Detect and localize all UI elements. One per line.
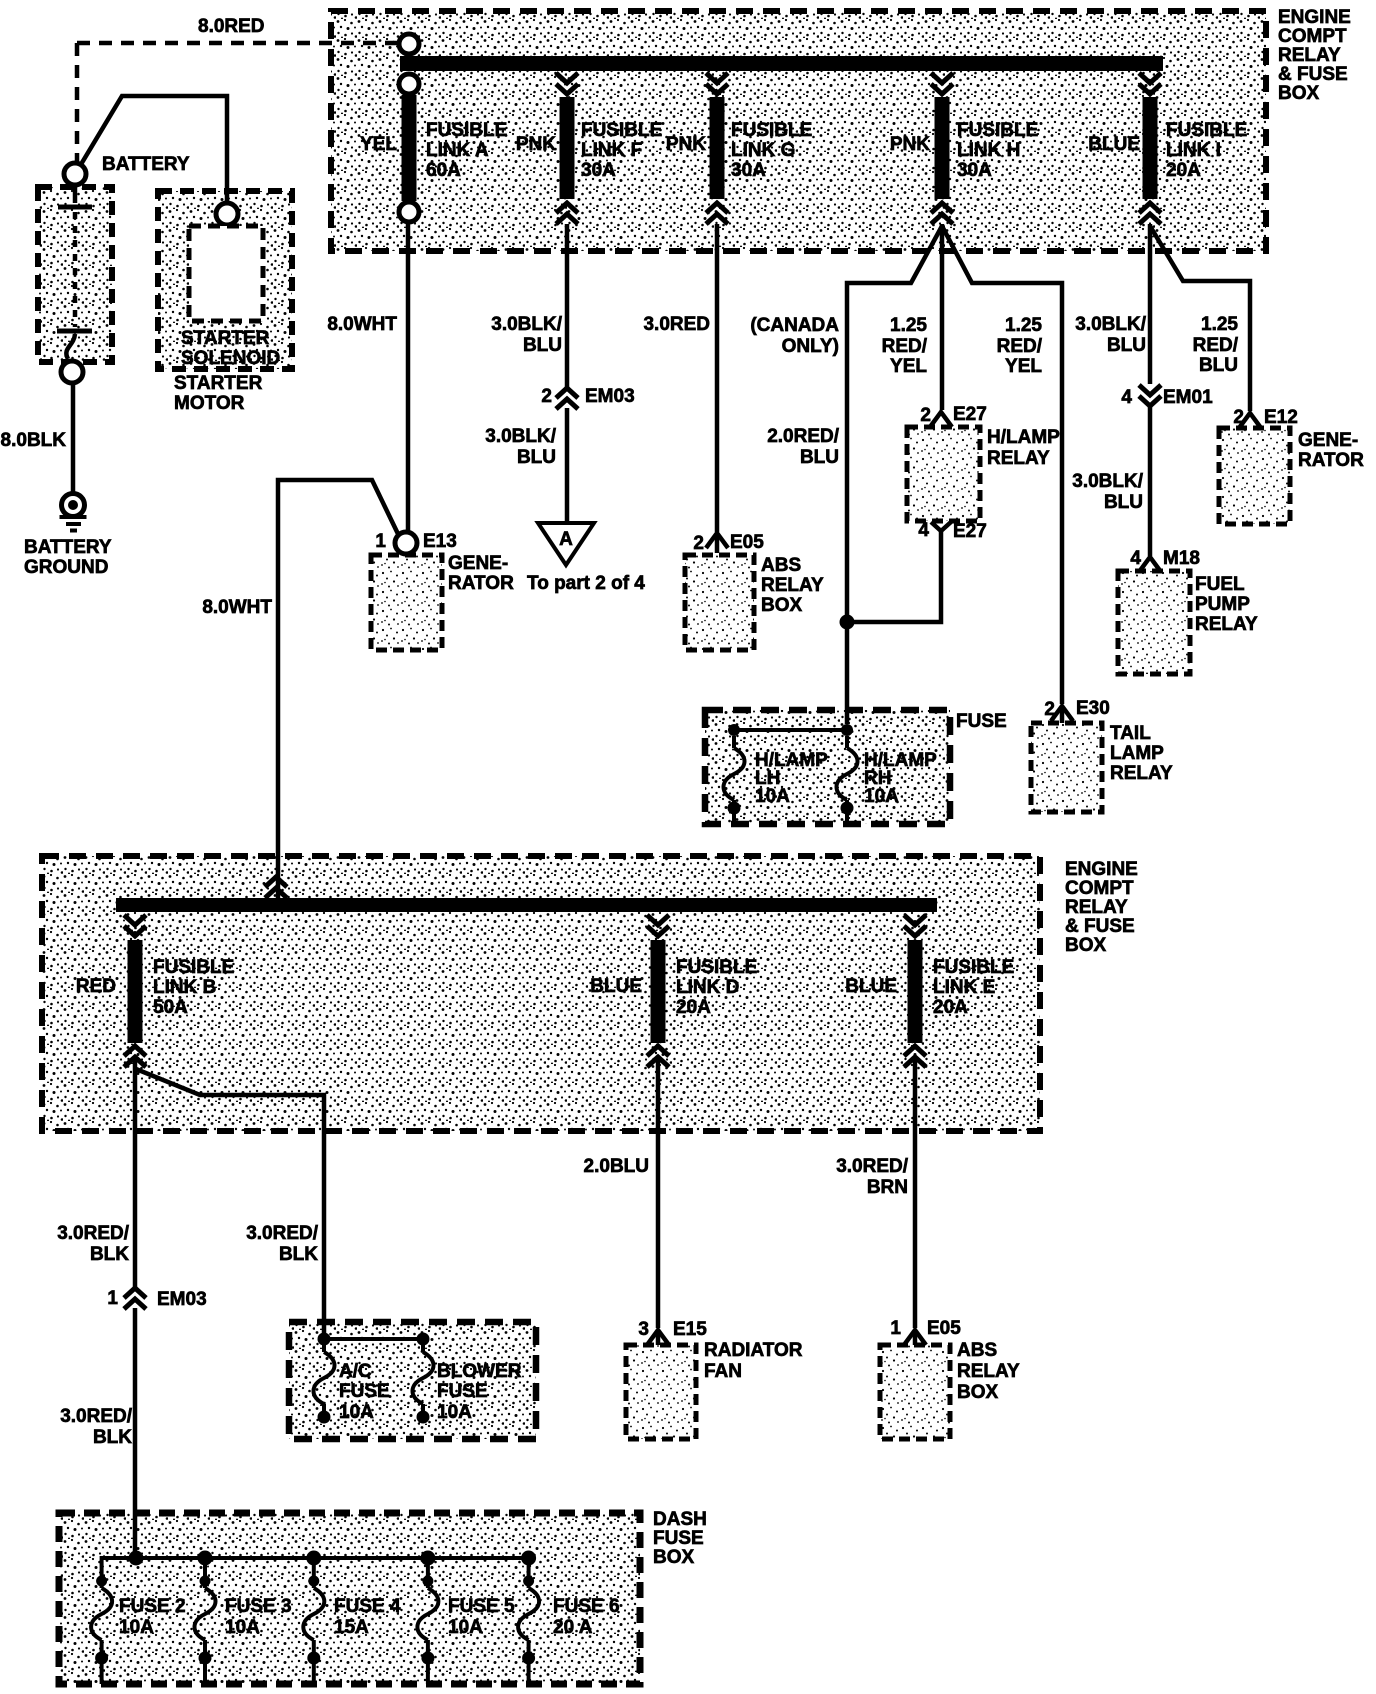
a/c - blower fuse box [289, 1322, 536, 1439]
engine compt relay & fuse box 1 (top) [331, 7, 1351, 251]
fusible link F 30A [516, 73, 662, 224]
svg-text:BOX: BOX [761, 595, 803, 616]
svg-text:FUSE: FUSE [437, 1381, 488, 1402]
wire 3.0BLK/BLU link F to EM03 [565, 224, 570, 387]
svg-text:30A: 30A [731, 160, 766, 181]
svg-text:RELAY: RELAY [1278, 45, 1341, 66]
fuse h/lamp lh 10A [724, 736, 829, 824]
svg-text:20A: 20A [1166, 160, 1201, 181]
junction h/lamp lh [728, 724, 740, 736]
svg-text:LINK F: LINK F [581, 140, 642, 161]
svg-text:1.25: 1.25 [890, 315, 927, 336]
starter solenoid / starter motor [158, 191, 292, 414]
junction node [840, 615, 855, 630]
svg-text:FUSE 6: FUSE 6 [553, 1596, 620, 1617]
fuse blower 10A [413, 1345, 522, 1424]
svg-text:EM03: EM03 [157, 1289, 207, 1310]
svg-text:RELAY: RELAY [987, 448, 1050, 469]
fusible link H 30A [890, 73, 1038, 224]
wire battery positive to starter solenoid [80, 96, 227, 202]
svg-text:E12: E12 [1264, 407, 1298, 428]
svg-text:10A: 10A [864, 786, 899, 807]
tail lamp relay box [1031, 723, 1173, 812]
svg-text:A/C: A/C [339, 1361, 372, 1382]
svg-text:FUSE 5: FUSE 5 [448, 1596, 515, 1617]
wire 3.0RED/BRN link E to E05 [913, 1060, 918, 1328]
svg-text:COMPT: COMPT [1278, 26, 1347, 47]
svg-text:3.0BLK/: 3.0BLK/ [1072, 471, 1143, 492]
svg-text:2.0RED/: 2.0RED/ [767, 426, 840, 447]
svg-text:1.25: 1.25 [1201, 314, 1238, 335]
svg-text:BATTERY: BATTERY [102, 154, 190, 175]
svg-text:3.0BLK/: 3.0BLK/ [491, 314, 562, 335]
svg-text:E27: E27 [953, 521, 987, 542]
svg-text:ONLY): ONLY) [782, 336, 839, 357]
battery [38, 154, 190, 383]
wire 3.0RED/BLK EM03 to dash fuse box [133, 1308, 138, 1552]
svg-text:10A: 10A [339, 1402, 374, 1423]
fusible link A 60A [360, 34, 507, 222]
svg-text:LAMP: LAMP [1110, 743, 1164, 764]
fuse 2 10A [91, 1576, 185, 1685]
svg-text:FUSE: FUSE [956, 711, 1007, 732]
svg-text:E13: E13 [423, 531, 457, 552]
generator box (E13) [371, 553, 514, 650]
svg-text:E15: E15 [673, 1319, 707, 1340]
connector E12 pin 2 [1233, 407, 1297, 428]
fuse 5 10A [417, 1558, 515, 1684]
svg-text:20A: 20A [933, 997, 968, 1018]
svg-text:PUMP: PUMP [1195, 594, 1250, 615]
wire 3.0BLK/BLU EM01 to M18 [1148, 406, 1153, 556]
svg-text:BLK: BLK [90, 1244, 129, 1265]
svg-text:20A: 20A [676, 997, 711, 1018]
svg-text:E05: E05 [730, 532, 764, 553]
svg-text:BLU: BLU [800, 447, 839, 468]
bus bar 2 [116, 898, 937, 912]
battery ground symbol [24, 494, 112, 579]
junction h/lamp rh [841, 724, 853, 736]
junction fuse 4 [306, 1551, 321, 1566]
bus bar 1 [400, 56, 1163, 71]
fusible link E 20A [845, 915, 1014, 1067]
wire 8.0RED battery to fuse box [77, 43, 398, 162]
fuel pump relay box [1118, 571, 1258, 674]
svg-text:BLU: BLU [523, 335, 562, 356]
svg-text:3: 3 [638, 1319, 649, 1340]
svg-text:FUSIBLE: FUSIBLE [676, 957, 757, 978]
fuse box (h/lamp fuses) [705, 710, 1007, 824]
svg-text:RED/: RED/ [1193, 335, 1239, 356]
svg-text:BATTERY: BATTERY [24, 537, 112, 558]
svg-text:LINK E: LINK E [933, 977, 995, 998]
wire a/c fuse bus [324, 1337, 423, 1341]
svg-text:RELAY: RELAY [957, 1361, 1020, 1382]
svg-text:GROUND: GROUND [24, 557, 108, 578]
svg-text:30A: 30A [957, 160, 992, 181]
fuse 4 15A [303, 1558, 401, 1684]
fuse A/C 10A [314, 1345, 390, 1424]
svg-text:LINK D: LINK D [676, 977, 739, 998]
svg-text:FUSE 3: FUSE 3 [225, 1596, 292, 1617]
off-page connector A [527, 523, 645, 594]
svg-text:10A: 10A [755, 786, 790, 807]
abs relay box (top) [685, 555, 824, 650]
wire link H left branch [847, 226, 942, 724]
connector EM03 pin 2 [541, 386, 634, 409]
svg-text:RELAY: RELAY [1110, 763, 1173, 784]
wire 8.0BLK battery to ground [71, 383, 76, 493]
wire 3.0RED/BLK link B to EM03 [133, 1060, 138, 1287]
svg-text:BLUE: BLUE [845, 976, 897, 997]
svg-text:RED/: RED/ [997, 336, 1043, 357]
fusible link B 50A [76, 915, 234, 1067]
svg-text:FUSE: FUSE [653, 1528, 704, 1549]
svg-text:DASH: DASH [653, 1509, 707, 1530]
svg-text:A: A [559, 529, 573, 550]
svg-text:STARTER: STARTER [174, 373, 263, 394]
svg-text:FUSIBLE: FUSIBLE [731, 120, 812, 141]
wire 3.0RED link G to E05 [715, 224, 720, 532]
svg-text:10A: 10A [437, 1402, 472, 1423]
svg-text:FUEL: FUEL [1195, 574, 1245, 595]
svg-text:LINK I: LINK I [1166, 140, 1221, 161]
svg-text:10A: 10A [448, 1617, 483, 1638]
fuse 3 10A [195, 1558, 292, 1684]
wire 2.0BLU link D to E15 [656, 1060, 661, 1328]
svg-text:2: 2 [920, 405, 931, 426]
svg-text:SOLENOID: SOLENOID [181, 348, 280, 369]
svg-text:3.0RED/: 3.0RED/ [836, 1156, 909, 1177]
svg-text:10A: 10A [119, 1617, 154, 1638]
svg-text:LINK G: LINK G [731, 140, 795, 161]
svg-text:BRN: BRN [867, 1177, 908, 1198]
svg-text:ABS: ABS [761, 555, 801, 576]
svg-text:FUSIBLE: FUSIBLE [1166, 120, 1247, 141]
wire 8.0WHT link A to E13 [406, 224, 411, 532]
connector E05 pin 1 [890, 1318, 961, 1345]
generator box (E12) [1219, 428, 1364, 524]
svg-text:TAIL: TAIL [1110, 723, 1151, 744]
junction incoming [129, 1551, 144, 1566]
svg-text:8.0RED: 8.0RED [198, 16, 265, 37]
wire 3.0BLK/BLU EM03 to A [565, 408, 570, 521]
svg-text:YEL: YEL [1005, 356, 1042, 377]
svg-text:FUSIBLE: FUSIBLE [426, 120, 507, 141]
svg-text:RATOR: RATOR [1298, 450, 1364, 471]
svg-text:RED: RED [76, 976, 116, 997]
svg-text:BLU: BLU [1107, 335, 1146, 356]
svg-text:YEL: YEL [890, 356, 927, 377]
svg-text:2.0BLU: 2.0BLU [584, 1156, 649, 1177]
svg-text:ENGINE: ENGINE [1065, 859, 1138, 880]
svg-text:ENGINE: ENGINE [1278, 7, 1351, 28]
svg-text:LINK B: LINK B [153, 977, 216, 998]
svg-text:STARTER: STARTER [181, 328, 270, 349]
svg-text:8.0WHT: 8.0WHT [327, 314, 397, 335]
dash fuse box [59, 1509, 707, 1684]
connector E15 pin 3 [638, 1319, 707, 1345]
connector E27 pin 4 [918, 520, 986, 542]
svg-text:FUSE: FUSE [339, 1381, 390, 1402]
junction fuse 5 [420, 1551, 435, 1566]
wire branch link B to A/C fuse box [136, 1069, 324, 1334]
svg-text:EM01: EM01 [1163, 387, 1213, 408]
svg-text:BLK: BLK [279, 1244, 318, 1265]
svg-text:FUSE 4: FUSE 4 [334, 1596, 401, 1617]
svg-text:15A: 15A [334, 1617, 369, 1638]
svg-text:1: 1 [890, 1318, 901, 1339]
svg-text:BLU: BLU [1199, 355, 1238, 376]
svg-text:& FUSE: & FUSE [1065, 916, 1135, 937]
svg-text:PNK: PNK [890, 134, 930, 155]
wire h/lamp fuse bus [734, 728, 847, 732]
svg-text:8.0BLK: 8.0BLK [1, 430, 67, 451]
junction fuse 6 [521, 1551, 536, 1566]
svg-text:RATOR: RATOR [448, 573, 514, 594]
engine compt relay & fuse box 2 [42, 856, 1138, 1131]
svg-text:2: 2 [1233, 407, 1244, 428]
svg-text:GENE-: GENE- [448, 553, 508, 574]
svg-text:LINK H: LINK H [957, 140, 1020, 161]
abs relay box (bottom) [880, 1340, 1020, 1439]
connector E13 pin 1 [375, 531, 456, 554]
svg-text:FUSIBLE: FUSIBLE [581, 120, 662, 141]
svg-text:PNK: PNK [516, 134, 556, 155]
svg-text:RED/: RED/ [882, 336, 928, 357]
svg-text:RADIATOR: RADIATOR [704, 1340, 803, 1361]
connector EM01 pin 4 [1121, 385, 1213, 408]
connector EM03 pin 1 [107, 1288, 206, 1310]
svg-text:E30: E30 [1076, 698, 1110, 719]
junction blower fuse [417, 1333, 430, 1346]
svg-text:1.25: 1.25 [1005, 315, 1042, 336]
fusible link D 20A [590, 915, 757, 1067]
svg-text:& FUSE: & FUSE [1278, 64, 1348, 85]
svg-text:LINK A: LINK A [426, 140, 489, 161]
svg-text:MOTOR: MOTOR [174, 393, 245, 414]
junction a/c fuse [318, 1333, 331, 1346]
svg-text:3.0RED/: 3.0RED/ [57, 1223, 130, 1244]
svg-text:2: 2 [541, 386, 552, 407]
svg-text:EM03: EM03 [585, 386, 635, 407]
svg-text:BOX: BOX [653, 1547, 695, 1568]
svg-text:FUSE 2: FUSE 2 [119, 1596, 186, 1617]
svg-text:PNK: PNK [666, 134, 706, 155]
connector E30 pin 2 [1044, 698, 1109, 723]
svg-text:2: 2 [1044, 699, 1055, 720]
wire 1.25RED/BLU link I to E12 [1150, 226, 1250, 411]
svg-text:To part 2 of 4: To part 2 of 4 [527, 573, 645, 594]
svg-text:BLUE: BLUE [1088, 134, 1140, 155]
svg-text:50A: 50A [153, 997, 188, 1018]
svg-text:10A: 10A [225, 1617, 260, 1638]
svg-text:RELAY: RELAY [761, 575, 824, 596]
connector E27 pin 2 [920, 404, 986, 427]
svg-text:M18: M18 [1163, 548, 1200, 569]
svg-text:3.0BLK/: 3.0BLK/ [485, 426, 556, 447]
svg-text:GENE-: GENE- [1298, 430, 1358, 451]
svg-text:30A: 30A [581, 160, 616, 181]
wire 3.0BLK/BLU link I to EM01 [1148, 224, 1153, 384]
svg-text:E05: E05 [927, 1318, 961, 1339]
fusible link I 20A [1088, 73, 1247, 224]
svg-text:FUSIBLE: FUSIBLE [153, 957, 234, 978]
svg-text:RELAY: RELAY [1195, 614, 1258, 635]
junction fuse 3 [198, 1551, 213, 1566]
connector into bus 2 [265, 877, 287, 898]
svg-text:FAN: FAN [704, 1361, 742, 1382]
svg-text:1: 1 [375, 531, 386, 552]
svg-text:3.0RED: 3.0RED [643, 314, 710, 335]
wire E27 pin4 to junction [851, 540, 941, 622]
svg-text:4: 4 [1130, 548, 1141, 569]
svg-text:60A: 60A [426, 160, 461, 181]
svg-text:FUSIBLE: FUSIBLE [933, 957, 1014, 978]
svg-text:E27: E27 [953, 404, 987, 425]
svg-text:20 A: 20 A [553, 1617, 593, 1638]
svg-text:COMPT: COMPT [1065, 878, 1134, 899]
svg-text:BOX: BOX [1278, 83, 1320, 104]
h/lamp relay box [907, 427, 1060, 521]
svg-text:BLUE: BLUE [590, 976, 642, 997]
svg-text:RELAY: RELAY [1065, 897, 1128, 918]
dash fuse box bus wire [102, 1558, 529, 1581]
fuse 6 20A [518, 1558, 619, 1684]
svg-text:BLU: BLU [1104, 492, 1143, 513]
svg-text:FUSIBLE: FUSIBLE [957, 120, 1038, 141]
fuse h/lamp rh 10A [837, 736, 938, 824]
svg-text:BLU: BLU [517, 447, 556, 468]
svg-text:(CANADA: (CANADA [750, 315, 839, 336]
radiator fan box [626, 1340, 803, 1439]
fusible link G 30A [666, 73, 812, 224]
connector E05 pin 2 [693, 532, 764, 554]
svg-text:H/LAMP: H/LAMP [987, 427, 1060, 448]
connector M18 pin 4 [1130, 548, 1200, 572]
svg-text:BOX: BOX [957, 1382, 999, 1403]
wire link H right branch to E30 [942, 226, 1062, 704]
svg-text:1: 1 [107, 1288, 118, 1309]
svg-text:4: 4 [1121, 387, 1132, 408]
svg-text:4: 4 [918, 520, 929, 541]
svg-text:YEL: YEL [360, 134, 397, 155]
svg-text:BOX: BOX [1065, 935, 1107, 956]
svg-text:8.0WHT: 8.0WHT [202, 597, 272, 618]
svg-text:2: 2 [693, 533, 704, 554]
svg-text:3.0BLK/: 3.0BLK/ [1075, 314, 1146, 335]
wire link H center branch to E27 [940, 224, 945, 410]
svg-text:BLK: BLK [93, 1427, 132, 1448]
svg-text:3.0RED/: 3.0RED/ [246, 1223, 319, 1244]
svg-text:ABS: ABS [957, 1340, 997, 1361]
wire 8.0WHT E13 to box 2 [278, 480, 399, 898]
svg-text:BLOWER: BLOWER [437, 1361, 522, 1382]
svg-text:3.0RED/: 3.0RED/ [60, 1406, 133, 1427]
